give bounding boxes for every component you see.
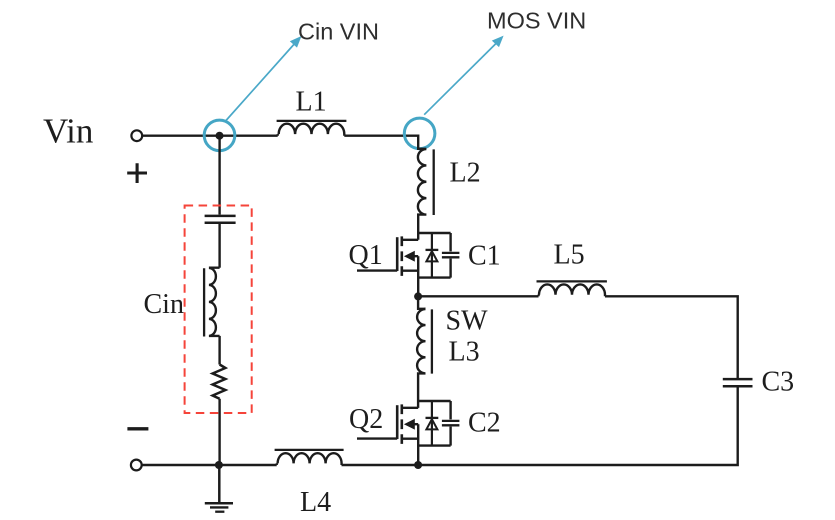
junction dot at Q2 source on bottom rail xyxy=(414,461,422,469)
wire: node Cin VIN down to Cin capacitor xyxy=(218,136,220,215)
terminal circle Vin- xyxy=(131,460,142,471)
wire: L4 right lead to Q2 source node xyxy=(342,464,419,466)
node circle MOS VIN xyxy=(404,118,435,149)
wire: L1 to node MOS VIN corner xyxy=(344,134,418,136)
terminal circle Vin+ xyxy=(131,130,142,141)
dashed highlight box around Cin network xyxy=(185,206,252,414)
minus sign xyxy=(127,427,148,430)
wire: node Cin VIN to L1 xyxy=(220,134,278,136)
node SW junction dot xyxy=(414,292,422,300)
wire: L5 to right rail and down to C3 xyxy=(605,296,738,378)
junction dot at node Cin VIN xyxy=(216,132,224,140)
resistor (Cin ESR) xyxy=(213,365,226,399)
svg-text:L2: L2 xyxy=(450,158,481,189)
svg-text:C2: C2 xyxy=(468,408,501,439)
svg-text:MOS VIN: MOS VIN xyxy=(487,8,586,34)
inductor L5 xyxy=(537,281,607,296)
inductor L4 xyxy=(275,450,344,465)
inductor L1 xyxy=(277,121,347,136)
wire: resistor to bottom rail xyxy=(218,399,220,465)
svg-text:Cin: Cin xyxy=(144,289,184,320)
junction dot at ground branch xyxy=(215,461,223,469)
capacitor (Cin branch) xyxy=(205,216,236,223)
transistor Q1 with body diode and snubber capacitor xyxy=(357,233,459,296)
transistor Q2 with body diode and snubber capacitor xyxy=(357,401,459,464)
svg-text:Q1: Q1 xyxy=(349,240,383,271)
wire: C3 down and bottom rail back to Q2 source node xyxy=(418,387,738,465)
wire: SW node to L5 xyxy=(418,295,538,297)
plus sign xyxy=(127,163,147,183)
wire: bottom rail from - terminal to L4 xyxy=(142,464,277,466)
wire: inductor to resistor (Cin ESR) xyxy=(218,336,220,365)
callout arrow to MOS VIN label xyxy=(424,36,503,115)
svg-text:L1: L1 xyxy=(296,87,327,118)
wire: corner at MOS VIN down + inductor L2 xyxy=(418,135,434,240)
inductor (Cin ESL) xyxy=(204,268,220,337)
inductor L3 xyxy=(417,296,432,408)
wire: ground stem xyxy=(218,465,221,502)
wire: top from + terminal to node Cin VIN xyxy=(143,134,220,136)
capacitor C3 xyxy=(723,379,753,386)
node circle Cin VIN xyxy=(204,120,235,151)
wire: capacitor to Cin inductor xyxy=(218,224,220,268)
svg-text:C1: C1 xyxy=(468,241,501,272)
svg-text:L5: L5 xyxy=(554,240,585,271)
svg-text:Q2: Q2 xyxy=(349,404,383,435)
svg-text:Cin VIN: Cin VIN xyxy=(298,19,379,45)
svg-text:C3: C3 xyxy=(762,367,795,398)
svg-text:L3: L3 xyxy=(449,337,480,368)
svg-text:SW: SW xyxy=(446,306,489,337)
ground xyxy=(205,503,233,512)
svg-text:L4: L4 xyxy=(300,487,331,518)
callout arrow to Cin VIN label xyxy=(226,36,302,121)
svg-text:Vin: Vin xyxy=(43,112,93,151)
